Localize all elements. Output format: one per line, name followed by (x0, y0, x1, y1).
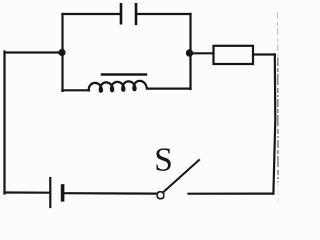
wire: bottom left horizontal to battery (5, 191, 50, 193)
inductor core bar (102, 73, 146, 75)
resistor R (rectangle) (214, 46, 254, 64)
wire: left node to outer left (5, 51, 63, 53)
switch S contact circle (157, 192, 164, 199)
wire: inductor branch right horizontal (147, 87, 191, 89)
node (left junction) (58, 49, 65, 56)
wire: top left horizontal to capacitor (63, 13, 121, 15)
capacitor right plate (135, 4, 138, 24)
wire: left branch vertical (top corner to inductor level) (61, 14, 63, 91)
wire: bottom right horizontal (switch to right corner) (189, 193, 274, 195)
battery long plate (positive) (49, 178, 51, 207)
wire: resistor to outer right corner (253, 53, 275, 55)
wire: top right horizontal from capacitor (137, 13, 191, 15)
switch label S (156, 148, 170, 171)
page-edge scan artifact (right) (277, 12, 279, 58)
wire: right node to resistor (191, 52, 214, 54)
capacitor left plate (120, 4, 123, 23)
switch S lever arm (164, 160, 199, 191)
wire: inductor branch left horizontal (63, 89, 90, 91)
node (right junction) (186, 49, 193, 56)
battery short plate (negative) (61, 186, 65, 200)
wire: battery to switch (65, 192, 157, 195)
wire: outer left vertical (3, 52, 5, 194)
wire: right branch vertical (top corner through node to inductor level) (189, 14, 191, 89)
wire: outer right vertical (273, 55, 275, 194)
inductor L coil (89, 81, 147, 92)
